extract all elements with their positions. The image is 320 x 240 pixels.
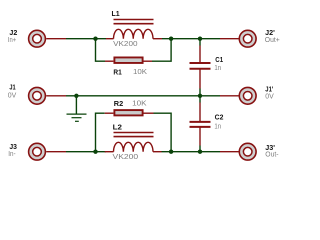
resistor R1 bbox=[105, 57, 152, 63]
junction node G bottom riser bbox=[169, 150, 173, 154]
junction node E mid cap column bbox=[198, 94, 202, 98]
svg-text:Out+: Out+ bbox=[265, 35, 280, 44]
junction node C top cap column bbox=[198, 37, 202, 41]
wire top row L1 right to J2' bbox=[162, 38, 220, 40]
pin J3 stub bbox=[46, 151, 66, 153]
wire R2 right down to bottom row bbox=[154, 113, 172, 152]
wire vertical node A down to R1 left bbox=[96, 39, 106, 62]
svg-text:In+: In+ bbox=[8, 35, 16, 44]
wire bottom row L2 right to J3' bbox=[162, 151, 221, 153]
svg-text:1n: 1n bbox=[214, 122, 221, 131]
junction node F bottom-left bbox=[93, 150, 97, 154]
svg-text:VK200: VK200 bbox=[113, 39, 137, 48]
wire C2 bottom lead green bbox=[199, 146, 201, 152]
svg-text:0V: 0V bbox=[8, 91, 17, 100]
connector J2 bbox=[29, 30, 46, 47]
svg-text:C2: C2 bbox=[215, 113, 224, 122]
wire middle row 0V bbox=[66, 95, 220, 97]
wire C1 bottom lead green bbox=[199, 89, 201, 96]
inductor L1 bbox=[106, 20, 162, 39]
svg-text:0V: 0V bbox=[265, 92, 274, 101]
wire R1 right up to top row bbox=[152, 39, 171, 62]
svg-text:VK200: VK200 bbox=[113, 152, 139, 161]
wire C2 top lead green bbox=[199, 96, 201, 103]
junction node H bottom cap column bbox=[198, 150, 202, 154]
svg-text:L2: L2 bbox=[113, 122, 122, 131]
svg-text:10K: 10K bbox=[133, 67, 147, 76]
connector J1 bbox=[29, 87, 46, 104]
svg-text:L1: L1 bbox=[112, 9, 120, 18]
pin J3' stub bbox=[220, 151, 239, 153]
svg-text:10K: 10K bbox=[132, 98, 147, 107]
svg-text:Out-: Out- bbox=[265, 150, 279, 159]
svg-text:R1: R1 bbox=[113, 68, 121, 77]
connector J1' bbox=[239, 87, 256, 104]
wire bottom node up to R2 left bbox=[96, 113, 105, 152]
svg-text:1n: 1n bbox=[214, 63, 221, 72]
pin J2' stub bbox=[220, 38, 239, 40]
connector J3 bbox=[29, 143, 46, 160]
wire C1 top lead green bbox=[199, 39, 201, 46]
junction node A top-left bbox=[93, 37, 97, 41]
wire bottom row J3 to L2 left bbox=[66, 151, 106, 153]
connector J2' bbox=[239, 30, 256, 47]
pin J2 stub bbox=[46, 38, 66, 40]
svg-text:In-: In- bbox=[8, 149, 16, 158]
capacitor C2 bbox=[190, 103, 211, 146]
resistor R2 bbox=[105, 110, 154, 115]
connector J3' bbox=[239, 143, 256, 160]
wire top row J2 to L1 left bbox=[66, 38, 106, 40]
capacitor C1 bbox=[190, 46, 211, 89]
ground bbox=[67, 96, 87, 122]
pin J1 stub bbox=[46, 95, 66, 97]
junction node B top-right riser bbox=[169, 37, 173, 41]
inductor L2 bbox=[105, 133, 162, 152]
pin J1' stub bbox=[220, 95, 239, 97]
svg-text:R2: R2 bbox=[114, 99, 123, 108]
junction node D ground on 0V bbox=[74, 94, 78, 98]
